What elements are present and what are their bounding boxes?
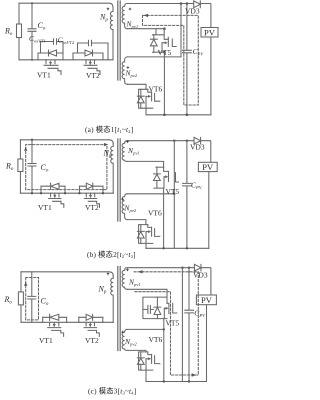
diode VT1 body diode (b)	[41, 183, 65, 189]
arrow: VT5 source arrow (c)	[164, 307, 167, 309]
polarity star Npv2 (b)	[121, 198, 124, 201]
wire: VT2 right stub to rail (a)	[102, 53, 104, 60]
wire: bottom rail left (b)	[20, 192, 113, 194]
wire: left vertical branch (a)	[18, 3, 20, 24]
dashed current loop primary (b)	[26, 145, 107, 190]
node: rail junction CPV (c)	[188, 380, 190, 382]
wire: Npv1 bottom wire to VT5 (c)	[127, 289, 167, 297]
capacitor CosVT5 snubber (c)	[143, 305, 154, 313]
arrow: VT6 source arrow (a)	[146, 95, 150, 97]
svg-text:VD3: VD3	[185, 7, 200, 16]
transformer core bars (c)	[118, 267, 120, 351]
transistor VT2 MOSFET (a)	[84, 60, 100, 75]
polarity star Npv1 (c)	[126, 268, 129, 271]
transistor VT2 MOSFET (b)	[84, 193, 99, 207]
arrow: VT2 source arrow (c)	[89, 322, 91, 326]
wire: top rail left (b)	[20, 140, 113, 144]
svg-text:VT2: VT2	[86, 71, 100, 80]
node: VT2 right stub junction (b)	[102, 192, 104, 194]
transistor VT6 cluster frame (c)	[139, 352, 153, 370]
svg-text:(a) 模态1[t1~t2]: (a) 模态1[t1~t2]	[85, 125, 133, 134]
wire: top rail right (c)	[127, 267, 194, 269]
winding Npv2 secondary (b)	[122, 194, 127, 220]
wire: VT5 source lead (c)	[163, 308, 165, 318]
wire: Npv1 bottom wire to VT5 (a)	[127, 28, 164, 30]
svg-text:(c) 模态3[t3~t4]: (c) 模态3[t3~t4]	[88, 387, 136, 396]
polarity star Npv1 (a)	[128, 7, 131, 10]
wire: VT2 stubs (b)	[80, 186, 104, 193]
svg-text:VT5: VT5	[166, 187, 180, 196]
arrow: VT5 source arrow (b)	[164, 176, 167, 178]
node: top rail junction x182 (c)	[181, 267, 183, 269]
transistor VT6 cluster frame (b)	[139, 225, 153, 244]
diode VT2 body diode (c)	[79, 314, 103, 320]
transistor VT2 MOSFET (c)	[84, 322, 99, 336]
arrow: dashed arrowhead right on bottom edge (c)	[192, 373, 197, 376]
box PV (a)	[201, 28, 218, 38]
wire: bottom rail left (c)	[21, 321, 113, 323]
resistor Ro (a)	[17, 24, 22, 38]
node: junction top rail at x181 (a)	[180, 2, 183, 5]
wire: top rail right (a) to VD3	[127, 3, 194, 5]
capacitor CosVT1 snubber branch (a)	[41, 39, 64, 53]
node: Co top junction (a)	[31, 2, 33, 4]
diode VT6 body diode (c)	[137, 352, 144, 370]
winding Npv1 secondary (c)	[122, 268, 127, 290]
svg-text:PV: PV	[202, 162, 214, 172]
wire: Npv2 bottom wire to VT6 (b)	[127, 220, 145, 225]
wire: Npv2 top wire (c)	[127, 328, 164, 330]
wire: VT1 stubs (c)	[43, 317, 67, 322]
wire: Npv2 bottom wire to VT6 (a)	[127, 84, 146, 89]
wire: top rail left (a)	[19, 3, 113, 7]
winding Npv1 secondary (a)	[122, 4, 127, 29]
diode VT1 body diode (c)	[43, 314, 67, 320]
wire: VT6 source lead to rail (b)	[145, 232, 147, 249]
polarity star Npv2 (c)	[121, 330, 124, 333]
wire: VT1 right stub to rail (a)	[62, 53, 64, 60]
svg-text:VD3: VD3	[193, 271, 208, 280]
dashed current loop Ro-Co (c)	[26, 278, 39, 320]
wire: VT2 stubs (c)	[79, 317, 103, 322]
arrow: dashed loop right arrowhead at top (b)	[104, 143, 108, 146]
arrow: VT2 source arrow (b)	[90, 193, 92, 197]
node: Co bottom junction (a)	[31, 59, 33, 61]
diode VT5 body diode (b)	[154, 167, 161, 188]
wire: bottom rail right (b)	[146, 247, 209, 249]
transformer core bars (a)	[118, 1, 120, 80]
diode VT6 body diode (b)	[137, 225, 144, 244]
wire: VT6 source lead to rail (c)	[145, 359, 147, 382]
wire: Npv1 bottom wire to VT5 (b)	[127, 161, 163, 167]
arrow: VT1 source arrow (c)	[53, 322, 55, 326]
node: VT5 bottom junction (a)	[163, 51, 166, 54]
polarity star Np (a)	[106, 7, 109, 10]
wire: secondary bus down to rail (a)	[163, 52, 165, 115]
winding Np primary (a)	[110, 7, 113, 60]
svg-text:VT6: VT6	[149, 85, 163, 94]
transistor VT6 MOSFET (c)	[148, 352, 160, 364]
wire: VT5 bus down to rail (b)	[163, 188, 165, 248]
wire: VT1 stubs (b)	[41, 186, 65, 193]
arrow: VT6 source arrow (c)	[146, 358, 150, 360]
transistor VT5 cluster top bar and stub (a)	[153, 29, 169, 40]
node: junction top rail at x187 (a)	[186, 2, 189, 5]
svg-text:VT5: VT5	[158, 48, 172, 57]
arrow: VT2 source arrow (a)	[89, 60, 91, 64]
labels figure (c)	[4, 271, 213, 396]
resistor Ro (c)	[18, 292, 23, 305]
transistor VT5 MOSFET (c)	[167, 297, 177, 313]
arrow: VT1 source arrow (a)	[50, 60, 52, 64]
diode VT6 body diode (a)	[137, 89, 144, 108]
wire: vertical from top rail to Npv2 wire (a)	[180, 4, 182, 57]
winding Npv1 secondary (b)	[122, 141, 127, 162]
wire: bottom rail right (c)	[146, 381, 207, 383]
diode VT2 body diode (a): wire and right-pointing diode	[73, 50, 103, 56]
wire: VT6 source lead down to rail (a)	[145, 96, 147, 114]
transistor VT6 cluster frame (a)	[139, 89, 153, 108]
node: VT5 drain junction (a)	[163, 27, 166, 30]
box PV (b)	[198, 162, 217, 171]
node: rail junction secondary bus (a)	[163, 114, 166, 117]
node: rail junction bus (b)	[162, 247, 164, 249]
node: VT2 left stub junction (b)	[78, 192, 80, 194]
wire: left vertical branch (c)	[20, 272, 22, 292]
transistor VT5 cluster top bar (b)	[156, 166, 164, 168]
svg-text:VT1: VT1	[38, 203, 52, 212]
node: rail junction CPV (a)	[186, 114, 189, 117]
wire: vertical from rail down (b)	[173, 141, 175, 249]
svg-text:VT6: VT6	[148, 209, 162, 218]
transistor VT6 MOSFET channel and gate (a)	[148, 89, 160, 101]
wire: VT5 bus down to rail (c)	[163, 319, 165, 382]
svg-text:VT1: VT1	[37, 71, 51, 80]
diode VT1 body diode (a): wire and left-pointing diode	[38, 50, 63, 56]
wire: left vertical branch (b)	[19, 140, 21, 159]
capacitor Co (c)	[28, 272, 36, 323]
polarity star Np (c)	[106, 272, 109, 275]
transistor VT5 MOSFET channel and gate (a)	[168, 37, 176, 46]
winding Npv2 secondary (c)	[122, 329, 127, 350]
wire: VT2 left stub to rail (a)	[72, 53, 74, 60]
wire: VT5 bottom bar (a)	[153, 51, 165, 53]
wire: PV bottom lead (c)	[206, 305, 208, 382]
svg-text:VT2: VT2	[85, 336, 99, 345]
node: junction Npv2 wire and bus (c)	[163, 328, 165, 330]
polarity star Npv1 (b)	[126, 140, 129, 143]
wire: VT5 source lead (a)	[161, 43, 163, 52]
node: VT1 right stub junction (b)	[64, 192, 66, 194]
svg-text:PV: PV	[201, 295, 213, 305]
svg-text:PV: PV	[204, 28, 216, 38]
wire: top rail right (b)	[127, 140, 194, 142]
arrow: dashed arrowhead left on top edge (c)	[138, 270, 143, 273]
dashed current loop (a)	[143, 15, 199, 105]
labels figure (b)	[5, 143, 214, 260]
node: rail junction CPV (b)	[186, 247, 188, 249]
transformer core bars (b)	[118, 139, 120, 221]
wire: Npv2 top wire (a)	[127, 56, 181, 58]
polarity star Npv2 (a)	[126, 66, 129, 69]
capacitor CPV branch (a)	[183, 4, 192, 115]
svg-text:VT2: VT2	[85, 203, 99, 212]
capacitor CPV branch (b)	[183, 141, 192, 249]
diode VT5 body diode (a)	[150, 35, 157, 52]
node: rail junction bus (c)	[163, 380, 165, 382]
labels figure (a)	[4, 7, 216, 135]
svg-text:VD3: VD3	[190, 143, 205, 152]
wire: PV bottom lead (b)	[208, 172, 210, 249]
transistor VT1 MOSFET (b)	[49, 193, 64, 207]
node: VT1 left stub junction (b)	[40, 192, 42, 194]
transistor VT5 MOSFET (b)	[164, 167, 179, 182]
transistor VT5 cluster top and bottom bars (c)	[143, 297, 167, 319]
arrow: dashed loop arrowhead pointing left (a)	[144, 14, 149, 17]
transistor VT1 MOSFET (c)	[48, 322, 64, 336]
transistor VT6 MOSFET (b)	[148, 225, 160, 237]
wire: Npv2 bottom wire to VT6 (c)	[127, 350, 145, 352]
box PV (c)	[196, 295, 216, 305]
node: junction Npv2 wire and vertical (b)	[173, 193, 175, 195]
svg-text:VT1: VT1	[39, 336, 53, 345]
wire: vertical from rail down (c)	[181, 268, 183, 382]
wire: VT5 source lead and bottom bar (b)	[154, 177, 164, 188]
winding Np primary (c)	[111, 276, 114, 323]
capacitor Co (a)	[28, 3, 36, 60]
wire: Npv2 top wire (b)	[127, 193, 174, 195]
wire: VT1 left stub to rail (a)	[37, 53, 39, 60]
wire: bottom rail right (a)	[146, 114, 211, 116]
transistor VT1 MOSFET (a)	[44, 60, 61, 75]
arrow: dashed loop up arrow (c)	[24, 282, 27, 286]
arrow: VT1 source arrow (b)	[54, 193, 56, 197]
capacitor CosVT2 snubber branch (a)	[78, 40, 109, 60]
winding Npv2 secondary (a)	[122, 57, 127, 84]
node: top rail junction x187 (b)	[186, 140, 188, 142]
node: top rail junction x189 (c)	[188, 267, 190, 269]
wire: top rail left (c)	[21, 272, 113, 276]
diode VD3 (a)	[194, 1, 201, 8]
resistor Ro (b)	[18, 159, 23, 172]
svg-text:VT6: VT6	[149, 335, 163, 344]
winding Np primary (b)	[111, 144, 114, 193]
svg-text:VT5: VT5	[166, 319, 180, 328]
capacitor CPV branch (c)	[185, 268, 194, 382]
capacitor Co (b)	[28, 140, 36, 193]
node: top rail junction x174 (b)	[173, 140, 175, 142]
svg-text:(b) 模态2[t2~t3]: (b) 模态2[t2~t3]	[87, 250, 136, 259]
wire: PV bottom lead to rail (a)	[210, 37, 212, 115]
node: Co bottom junction (b)	[31, 192, 33, 194]
dashed current loop secondary (c)	[134, 272, 198, 375]
arrow: VT6 source arrow (b)	[146, 231, 150, 233]
diode VD3 (b)	[194, 137, 201, 144]
diode VT2 body diode (b)	[80, 183, 104, 189]
arrow: dashed loop up arrow on left edge (b)	[24, 147, 27, 151]
arrow: VT5 source arrow (a)	[162, 42, 166, 44]
node: Co top junction (b)	[31, 139, 33, 141]
wire: bottom rail left (a)	[19, 59, 113, 61]
diode VT5 body diode (c)	[154, 297, 161, 319]
diode VD3 (c)	[194, 264, 201, 271]
